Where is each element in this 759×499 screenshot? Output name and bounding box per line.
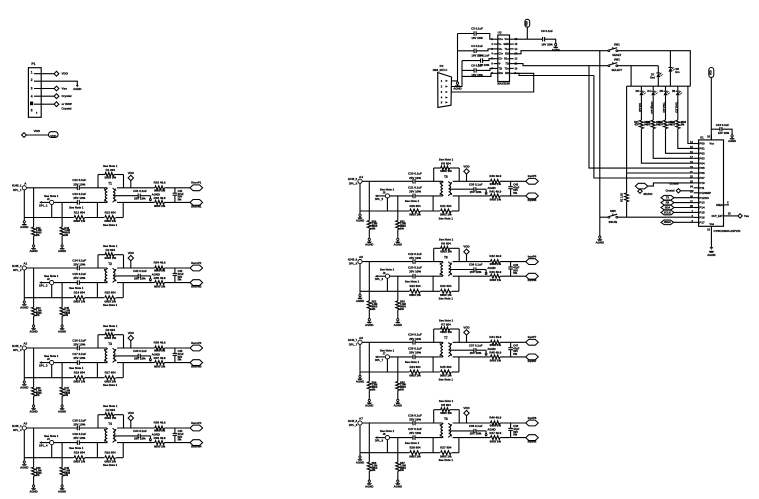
svg-text:AGND: AGND xyxy=(152,192,160,196)
wire LED chain 3 to MCU xyxy=(666,129,694,154)
input terminal RJ45N_4 xyxy=(50,441,54,445)
power VDD diamond xyxy=(466,254,468,261)
svg-text:AGND: AGND xyxy=(58,489,66,493)
off-page arrow at second input xyxy=(39,441,42,444)
svg-text:XRES: XRES xyxy=(664,220,671,224)
pushbutton SW1 RESET xyxy=(608,50,610,52)
wire bus right leg up xyxy=(122,202,124,217)
wire vertical drop lower wire to bus xyxy=(61,443,63,458)
svg-text:Red: Red xyxy=(650,76,655,79)
U2 right pin 11 xyxy=(510,63,514,65)
svg-text:Vcc: Vcc xyxy=(710,141,715,145)
input terminal RJ45_7 xyxy=(358,340,362,344)
wire secondary top to output resistor xyxy=(453,341,491,343)
svg-text:AGND: AGND xyxy=(29,489,37,493)
svg-text:4: 4 xyxy=(441,96,443,100)
capacitor C25 (series, lower) xyxy=(412,355,414,360)
svg-text:RecvP1: RecvP1 xyxy=(191,181,202,185)
svg-text:P12SMP: P12SMP xyxy=(699,191,711,195)
wire bus right leg up xyxy=(458,357,460,372)
resistor R12 (bus left) xyxy=(24,217,73,219)
capacitor C43 shunt output xyxy=(174,348,176,353)
svg-text:4: 4 xyxy=(115,280,117,283)
svg-text:VDD: VDD xyxy=(463,245,469,249)
svg-text:VDD: VDD xyxy=(527,21,529,26)
U1 left pin 3 P17 xyxy=(694,221,699,223)
ground AGND at center tap xyxy=(150,198,152,200)
resistor R33 49.9 (bottom out) xyxy=(155,200,165,204)
wire SW2 drop to LED bus xyxy=(630,66,632,87)
svg-text:C1-: C1- xyxy=(499,48,503,51)
input terminal RJ45N_7 xyxy=(385,355,389,359)
off-page arrow at second input xyxy=(375,436,378,439)
svg-text:5%: 5% xyxy=(513,191,517,195)
svg-text:P06: P06 xyxy=(699,171,705,175)
wire to output terminal P xyxy=(500,180,526,182)
wire top C_a to transformer xyxy=(415,422,443,424)
off-page arrow at second input xyxy=(375,195,378,198)
svg-text:P10: P10 xyxy=(699,181,705,185)
svg-text:R32 49.9: R32 49.9 xyxy=(154,180,166,184)
svg-text:470: 470 xyxy=(646,124,651,127)
svg-text:VDD: VDD xyxy=(711,70,713,75)
wire terminal1 down to bus xyxy=(23,270,25,298)
svg-text:25V 10%: 25V 10% xyxy=(470,351,482,355)
svg-text:25V 10%: 25V 10% xyxy=(409,431,421,435)
resistor R34 49.9 (top out) xyxy=(155,266,165,270)
resistor R21 (bus right) xyxy=(421,210,441,212)
svg-text:DPL_8: DPL_8 xyxy=(375,439,384,443)
resistor R3 across transformer top xyxy=(97,335,99,348)
svg-text:25V 10%: 25V 10% xyxy=(134,437,146,441)
svg-text:SW-PB: SW-PB xyxy=(609,220,618,224)
pulldown resistor R43 xyxy=(61,218,63,228)
svg-text:RecvP3: RecvP3 xyxy=(191,341,202,345)
ground AGND under pulldown 1 xyxy=(368,310,370,319)
wire C10 to ground xyxy=(722,129,732,135)
svg-text:VDD: VDD xyxy=(128,251,134,255)
svg-text:R39 49.9: R39 49.9 xyxy=(154,436,166,440)
wire vertical drop lower wire to bus xyxy=(61,283,63,298)
U1 left pin 26 P12XO xyxy=(694,197,699,199)
svg-text:R21 604: R21 604 xyxy=(440,204,451,208)
svg-text:0603 1%: 0603 1% xyxy=(440,169,452,173)
ground AGND under pulldown 1 xyxy=(33,316,35,325)
switch row wire to MCU pin16 xyxy=(600,216,608,218)
resistor R23 (bus right) xyxy=(421,290,441,292)
wire top C_a to transformer xyxy=(79,267,107,269)
svg-text:AGND: AGND xyxy=(152,273,160,277)
svg-text:RJ45_6: RJ45_6 xyxy=(348,257,358,261)
U1 left pin 23 P10 xyxy=(694,182,699,184)
svg-text:C4 0.1uF: C4 0.1uF xyxy=(471,44,483,48)
svg-text:AGND: AGND xyxy=(365,404,373,408)
svg-text:16V 10%: 16V 10% xyxy=(541,43,553,47)
svg-text:DPL_3: DPL_3 xyxy=(39,364,48,368)
U1 left pin 14 P00 xyxy=(694,143,699,145)
capacitor C6 0.1uF xyxy=(473,68,475,72)
input terminal RJ45_6 xyxy=(358,260,362,264)
svg-text:AGND: AGND xyxy=(728,139,736,143)
U1 left pin 25 P12SMP xyxy=(694,192,699,194)
svg-text:25V 10%: 25V 10% xyxy=(134,357,146,361)
svg-text:5%: 5% xyxy=(178,358,182,362)
pushbutton SW2 xyxy=(608,65,610,67)
svg-text:R1 2.2K: R1 2.2K xyxy=(621,193,624,202)
svg-text:R6 604: R6 604 xyxy=(441,242,451,246)
terminal XRES xyxy=(661,220,674,225)
terminal Vss diamond right xyxy=(738,214,742,218)
svg-text:2: 2 xyxy=(451,183,453,185)
svg-text:R42 49.9: R42 49.9 xyxy=(489,254,501,258)
resistor R47 49.9 (bottom out) xyxy=(490,436,500,440)
svg-text:R3 604: R3 604 xyxy=(106,328,116,332)
terminal Vss diamond pin3 xyxy=(54,86,59,91)
svg-text:RJ45_2: RJ45_2 xyxy=(12,264,22,268)
svg-text:0603 1%: 0603 1% xyxy=(440,249,452,253)
svg-text:R43 49.9: R43 49.9 xyxy=(489,270,501,274)
wire vertical drop from top wire to bus xyxy=(368,342,370,372)
wire second terminal to C_b xyxy=(54,442,78,444)
wire terminal1 down to bus xyxy=(23,350,25,378)
svg-text:C6 0.1uF: C6 0.1uF xyxy=(471,63,483,67)
wire secondary bottom to output resistor xyxy=(453,195,491,197)
power capsule VDD xyxy=(49,132,59,138)
terminal VDD diamond pin1 xyxy=(54,71,59,76)
terminal TX xyxy=(661,195,674,200)
svg-text:5: 5 xyxy=(727,200,729,204)
svg-text:InptP8: InptP8 xyxy=(528,416,537,420)
wire VDD to MCU Vcc xyxy=(710,77,712,139)
wire vertical drop from top wire to bus xyxy=(368,423,370,453)
U2 right pin 16 xyxy=(510,38,514,40)
svg-text:R44 49.9: R44 49.9 xyxy=(489,335,501,339)
wire terminal1 down to bus xyxy=(359,183,361,211)
capacitor C47 shunt output xyxy=(510,342,512,347)
resistor R21 470 xyxy=(639,120,643,128)
wire bus right leg up xyxy=(122,283,124,298)
U1 left pin 22 P07 xyxy=(694,177,699,179)
capacitor C36 center tap xyxy=(473,267,475,271)
svg-text:A: A xyxy=(24,181,27,185)
svg-text:25V 10%: 25V 10% xyxy=(73,263,85,267)
svg-text:R2 604: R2 604 xyxy=(106,248,116,252)
svg-text:A5: A5 xyxy=(359,255,363,259)
wire top from terminal to C_a xyxy=(26,347,77,349)
wire Vcc branch to C10 xyxy=(711,128,720,130)
input terminal RJ45N_1 xyxy=(50,200,54,204)
svg-text:25V 10%: 25V 10% xyxy=(73,276,85,280)
svg-text:P04: P04 xyxy=(699,161,705,165)
output terminal RecvP3 xyxy=(190,345,203,351)
svg-text:RJ45_7: RJ45_7 xyxy=(348,338,358,342)
svg-text:25V 10%: 25V 10% xyxy=(409,256,421,260)
wire primary-bottom jog to bus xyxy=(432,357,434,372)
svg-text:470: 470 xyxy=(671,124,676,127)
U1 left pin 18 P04 xyxy=(694,162,699,164)
wire to output terminal N xyxy=(500,195,526,197)
resistor R35 49.9 (bottom out) xyxy=(155,281,165,285)
ground AGND under pulldown 1 xyxy=(33,396,35,405)
pulldown resistor R48 xyxy=(33,458,35,468)
wire vertical drop lower wire to bus xyxy=(397,196,399,211)
svg-text:R17 604: R17 604 xyxy=(105,371,116,375)
resistor R24 (bus left) xyxy=(360,371,409,373)
wire terminal2 down to bus xyxy=(386,440,388,453)
wire terminal2 down to bus xyxy=(386,278,388,291)
wire top C_a to transformer xyxy=(415,261,443,263)
resistor R15 (bus right) xyxy=(85,297,105,299)
svg-text:4: 4 xyxy=(115,440,117,443)
wire terminal1 down to bus xyxy=(23,190,25,218)
U1 left pin 27 P13 xyxy=(694,202,699,204)
svg-text:XRES: XRES xyxy=(716,204,723,207)
wire primary-bottom jog to bus xyxy=(432,438,434,453)
svg-text:A6: A6 xyxy=(359,336,363,340)
wire center tap cap to ground xyxy=(476,188,486,190)
svg-text:See Note 1: See Note 1 xyxy=(103,223,118,227)
wire terminal2 down to bus xyxy=(51,365,53,378)
svg-text:25V 10%: 25V 10% xyxy=(409,337,421,341)
svg-text:Crystal: Crystal xyxy=(669,181,678,185)
svg-text:SCLK: SCLK xyxy=(664,210,671,214)
svg-text:0603 1%: 0603 1% xyxy=(105,256,117,260)
svg-text:DPL_5: DPL_5 xyxy=(349,181,358,185)
svg-text:AGND: AGND xyxy=(29,409,37,413)
terminal ISSP diamond pin5 xyxy=(54,102,59,107)
resistor R1 across transformer top xyxy=(97,175,99,188)
svg-text:R45 49.9: R45 49.9 xyxy=(489,351,501,355)
resistor R26 (bus left) xyxy=(360,452,409,454)
svg-text:P01: P01 xyxy=(699,147,705,151)
wire to output terminal N xyxy=(500,437,526,439)
svg-text:AGND: AGND xyxy=(487,347,495,351)
wire lower C_b to transformer xyxy=(79,362,107,364)
svg-text:YlwLED: YlwLED xyxy=(662,102,666,112)
wire primary-bottom jog to bus xyxy=(432,196,434,211)
wire top C_a to transformer xyxy=(415,180,443,182)
U2 right pin 15 xyxy=(510,43,514,45)
svg-text:P13: P13 xyxy=(699,201,705,205)
svg-text:2: 2 xyxy=(115,350,117,352)
svg-text:RJ45_8: RJ45_8 xyxy=(348,419,358,423)
svg-text:D4: D4 xyxy=(647,89,651,93)
wire VDD capsule stem xyxy=(526,27,528,39)
svg-text:VDD: VDD xyxy=(128,411,134,415)
resistor R1 2.2K pullup xyxy=(626,86,628,193)
terminal SDA xyxy=(661,205,674,210)
svg-text:T6: T6 xyxy=(444,255,448,259)
svg-text:RJ45_4: RJ45_4 xyxy=(12,424,22,428)
wire bus right leg up xyxy=(122,363,124,378)
resistor R38 49.9 (top out) xyxy=(155,426,165,430)
svg-text:6: 6 xyxy=(491,62,493,66)
svg-text:25V 10%: 25V 10% xyxy=(134,277,146,281)
wire bus right leg up xyxy=(122,443,124,458)
capacitor C26 (series, top) xyxy=(412,421,414,426)
svg-text:0603 1%: 0603 1% xyxy=(154,284,166,288)
svg-text:See Note 1: See Note 1 xyxy=(405,441,420,445)
wire secondary top to output resistor xyxy=(117,427,155,429)
power VDD diamond xyxy=(130,421,132,428)
svg-text:AGND: AGND xyxy=(356,380,364,384)
svg-text:A3: A3 xyxy=(23,422,27,426)
svg-text:1: 1 xyxy=(31,70,33,74)
svg-text:6: 6 xyxy=(31,108,33,112)
svg-text:T8: T8 xyxy=(444,417,448,421)
svg-text:A4: A4 xyxy=(359,175,363,179)
svg-text:SW1: SW1 xyxy=(614,43,620,47)
off-page arrow at second input xyxy=(39,361,42,364)
ground AGND under pulldown 1 xyxy=(368,230,370,239)
wire bus right leg up xyxy=(458,196,460,211)
wire lower C_b to transformer xyxy=(415,356,443,358)
ground AGND under pulldown 2 xyxy=(61,396,63,405)
svg-text:InptN7: InptN7 xyxy=(528,359,537,363)
U2 right pin 12 xyxy=(510,58,514,60)
svg-text:0603 1%: 0603 1% xyxy=(409,374,421,378)
wire secondary bottom to output resistor xyxy=(453,437,491,439)
svg-text:R18 604: R18 604 xyxy=(74,451,85,455)
svg-text:0603 1%: 0603 1% xyxy=(154,204,166,208)
pulldown resistor R55 xyxy=(397,372,399,382)
wire VDD tie xyxy=(26,134,48,136)
svg-text:DPL_2: DPL_2 xyxy=(39,284,48,288)
svg-text:P00: P00 xyxy=(699,142,705,146)
input terminal RJ45_5 xyxy=(358,179,362,183)
wire left vertical C3-C4 leg xyxy=(457,34,459,83)
LED D6 xyxy=(677,86,679,90)
svg-text:DPL_1: DPL_1 xyxy=(13,188,22,192)
wire lower C_b to transformer xyxy=(79,442,107,444)
svg-text:25V 10%: 25V 10% xyxy=(73,356,85,360)
center tap wire xyxy=(449,188,474,190)
input terminal RJ45N_6 xyxy=(385,274,389,278)
resistor R13 (bus right) xyxy=(85,217,105,219)
svg-text:2: 2 xyxy=(451,344,453,346)
U2 right pin 13 xyxy=(510,53,514,55)
svg-text:C32 0.1uF: C32 0.1uF xyxy=(133,269,147,273)
output terminal RecvP4 xyxy=(190,425,203,431)
U2 left pin 7 xyxy=(494,67,498,69)
svg-text:CY8C24094-24PVXI: CY8C24094-24PVXI xyxy=(714,229,741,233)
svg-text:GrnLED: GrnLED xyxy=(674,102,678,113)
svg-text:AGND: AGND xyxy=(58,329,66,333)
ground AGND at center tap xyxy=(150,359,152,361)
wire second terminal to C_b xyxy=(390,437,414,439)
ground AGND under pulldown 2 xyxy=(61,476,63,485)
resistor R19 (bus right) xyxy=(85,457,105,459)
ground AGND under terminal 1 xyxy=(359,453,361,456)
power capsule VDD serial xyxy=(525,19,530,27)
svg-text:25V 10%: 25V 10% xyxy=(73,343,85,347)
wire to output terminal P xyxy=(500,422,526,424)
svg-text:RecvP2: RecvP2 xyxy=(191,261,202,265)
wire terminal2 down to bus xyxy=(51,445,53,458)
svg-text:R1o: R1o xyxy=(504,58,509,61)
svg-text:10: 10 xyxy=(707,228,710,232)
ground AGND under pulldown 1 xyxy=(368,391,370,400)
svg-text:Vss: Vss xyxy=(62,86,68,90)
wire lower C_b to transformer xyxy=(415,195,443,197)
svg-text:0603 1%: 0603 1% xyxy=(74,219,86,223)
wire vertical drop lower wire to bus xyxy=(397,357,399,372)
ground AGND under pulldown 1 xyxy=(33,476,35,485)
U2 left pin 6 xyxy=(494,63,498,65)
output terminal InptP6 xyxy=(526,259,539,265)
output terminal InptP7 xyxy=(526,339,539,345)
power capsule VDD mcu xyxy=(709,68,714,78)
svg-text:5%: 5% xyxy=(513,271,517,275)
svg-text:4: 4 xyxy=(451,354,453,357)
terminal SCLK xyxy=(661,210,674,215)
svg-text:AGND: AGND xyxy=(20,305,28,309)
svg-text:RecvP4: RecvP4 xyxy=(191,421,202,425)
ground AGND at C10 xyxy=(731,135,733,137)
wire top from terminal to C_a xyxy=(26,267,77,269)
capacitor C32 center tap xyxy=(137,274,139,278)
svg-text:0603 1%: 0603 1% xyxy=(105,416,117,420)
svg-text:RESET: RESET xyxy=(612,53,621,57)
capacitor C4 0.1uF xyxy=(473,49,475,53)
capacitor C21 (series, lower) xyxy=(412,194,414,199)
wire secondary top to output resistor xyxy=(453,180,491,182)
svg-text:RX: RX xyxy=(666,201,670,205)
wire LED bus xyxy=(627,85,691,87)
wire center tap cap to ground xyxy=(476,430,486,432)
svg-text:V+: V+ xyxy=(499,43,503,46)
svg-text:See Note 1: See Note 1 xyxy=(69,206,84,210)
capacitor C14 (series, top) xyxy=(76,266,78,271)
LED D4 xyxy=(652,86,654,90)
svg-text:4: 4 xyxy=(115,360,117,363)
U1 left pin 2 P16 xyxy=(694,216,699,218)
wire to output terminal P xyxy=(165,347,191,349)
wire top from terminal to C_a xyxy=(362,341,413,343)
svg-text:T1o: T1o xyxy=(505,48,510,51)
output terminal InptP5 xyxy=(526,178,539,184)
wire vertical drop from top wire to bus xyxy=(33,268,35,298)
center tap wire xyxy=(113,195,138,197)
svg-text:R12 604: R12 604 xyxy=(74,210,85,214)
wire top C_a to transformer xyxy=(79,427,107,429)
svg-text:5%: 5% xyxy=(178,438,182,442)
wire to output terminal N xyxy=(165,282,191,284)
resistor R22 (bus left) xyxy=(360,290,409,292)
svg-text:P15: P15 xyxy=(699,211,705,215)
capacitor C27 (series, lower) xyxy=(412,435,414,440)
svg-text:See Note 1: See Note 1 xyxy=(69,366,84,370)
svg-text:Grn: Grn xyxy=(675,71,680,74)
U1 left pin 19 P05 xyxy=(694,167,699,169)
svg-text:4: 4 xyxy=(451,273,453,276)
svg-text:25V 10%: 25V 10% xyxy=(409,189,421,193)
capacitor C19 (series, lower) xyxy=(76,440,78,445)
svg-text:R27 604: R27 604 xyxy=(440,446,451,450)
resistor R45 49.9 (bottom out) xyxy=(490,355,500,359)
svg-text:Vss: Vss xyxy=(744,214,749,218)
U1 pin 10 Vss bottom xyxy=(710,226,712,247)
svg-text:RecvN4: RecvN4 xyxy=(191,445,202,449)
wire vertical drop from top wire to bus xyxy=(33,428,35,458)
wire secondary top to output resistor xyxy=(117,267,155,269)
U2 left pin 1 xyxy=(494,38,498,40)
svg-text:See Note 1: See Note 1 xyxy=(405,199,420,203)
svg-text:DPL_1: DPL_1 xyxy=(39,203,48,207)
svg-text:R19 604: R19 604 xyxy=(105,451,116,455)
svg-text:R41 49.9: R41 49.9 xyxy=(489,190,501,194)
capacitor C10 0.1uF at Vcc xyxy=(719,127,721,131)
